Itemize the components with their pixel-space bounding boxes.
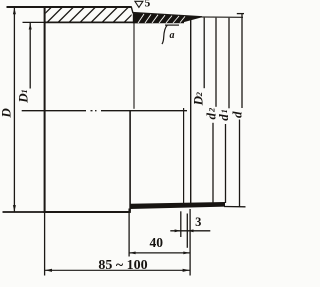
dimension line d1 upper: [228, 18, 230, 109]
centerline dash 1: [22, 110, 86, 112]
centerline dots: [91, 110, 93, 112]
svg-text:D: D: [0, 108, 14, 119]
tapered thin wall solid dark band with hatch gaps: [133, 13, 203, 23]
top edge of part with left extension line: [7, 6, 132, 8]
tick at top of d line: [237, 13, 244, 15]
dimension line d2 upper: [215, 18, 217, 107]
extension line from taper end to d dimension: [196, 16, 243, 18]
extension line 3 left: [180, 211, 182, 237]
arrow D top: [13, 8, 16, 15]
hatched section band left portion: [36, 7, 140, 23]
dimension line 85-100: [45, 269, 190, 271]
dimension line d1 lower: [225, 124, 227, 203]
bottom edge with left extension line: [3, 211, 45, 213]
svg-text:1: 1: [219, 109, 229, 113]
dimension line d lower: [239, 120, 241, 207]
svg-text:85 ~ 100: 85 ~ 100: [98, 258, 147, 273]
dimension line D2 lower / end-wall inner edge: [183, 108, 185, 204]
svg-text:3: 3: [195, 215, 201, 229]
arrow D bottom: [13, 205, 16, 212]
svg-text:5: 5: [145, 0, 151, 10]
right end face: [190, 17, 192, 208]
svg-text:1: 1: [19, 89, 29, 93]
dimension line D1: [29, 23, 31, 89]
bottom thin wall solid black band: [130, 202, 225, 209]
dimension line 3: [170, 230, 210, 232]
extension line right for 40 and 85-100: [189, 209, 191, 276]
svg-text:a: a: [170, 30, 175, 41]
extension line 40 left: [128, 209, 130, 257]
bore top edge H2: [44, 21, 184, 23]
leader curve for a: [162, 25, 167, 44]
step from top edge down to taper start: [131, 7, 133, 14]
centerline dash 2: [101, 110, 187, 112]
left end face: [44, 6, 46, 212]
dimension line 40: [129, 252, 190, 254]
internal step face lower half: [129, 111, 131, 212]
svg-text:d: d: [230, 111, 245, 118]
arrow 40 right: [183, 252, 190, 255]
dimension line d upper: [241, 14, 243, 108]
bottom edge of large portion: [44, 211, 131, 213]
arrow D1 top: [29, 23, 32, 30]
arrow 3 left: [175, 229, 181, 232]
label d2: [204, 107, 219, 119]
internal step face upper extension: [133, 23, 135, 109]
arrow 40 left: [129, 252, 136, 255]
extension line 3 right: [186, 214, 188, 248]
dimension line D2 upper: [203, 18, 205, 89]
dimension line d2 lower: [212, 123, 214, 204]
bottom edge extension line to the right: [224, 206, 246, 208]
arrow 85-100 right: [183, 269, 190, 272]
svg-text:40: 40: [150, 235, 164, 250]
leader crossbar: [165, 24, 179, 26]
dimension line D: [13, 8, 15, 212]
bore top edge H2 thin left extension: [23, 21, 46, 23]
surface finish triangle symbol: [135, 1, 143, 7]
arrow 3 right: [187, 229, 193, 232]
svg-text:2: 2: [207, 107, 217, 113]
arrow 85-100 left: [45, 269, 52, 272]
label D1: [16, 89, 31, 103]
tapered thin-wall top edge: [133, 13, 202, 17]
label d1: [216, 109, 231, 121]
extension line 85-100 left: [44, 213, 46, 276]
svg-text:2: 2: [194, 91, 204, 97]
label D2: [191, 91, 206, 106]
